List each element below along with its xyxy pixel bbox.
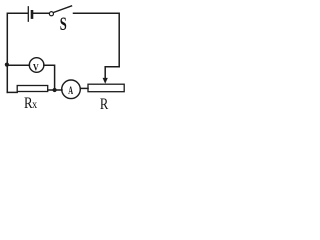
wire junction to ammeter (48, 89, 62, 91)
wire battery to switch (33, 12, 49, 14)
svg-text:x: x (32, 98, 37, 111)
switch S pivot circle (49, 12, 53, 16)
junction node dot bottom (53, 88, 57, 92)
wire left corner to resistor Rx (7, 91, 17, 93)
svg-text:R: R (100, 96, 109, 113)
svg-text:A: A (68, 84, 73, 97)
ammeter A circle (62, 80, 81, 99)
rheostat slider arrowhead (103, 78, 108, 84)
rheostat R body (88, 84, 124, 92)
svg-text:S: S (60, 15, 67, 35)
wire top-left from left corner to battery (7, 13, 27, 92)
voltmeter V circle (29, 58, 44, 73)
switch S lever arm (53, 6, 71, 13)
wire switch to top-right corner and down right side (74, 13, 120, 67)
battery cell short plate (31, 11, 34, 17)
battery cell long plate (27, 7, 29, 21)
svg-text:V: V (33, 63, 39, 74)
junction node dot left (5, 63, 9, 67)
wire junction to voltmeter (7, 64, 29, 66)
wire jog to rheostat slider (105, 67, 119, 79)
wire ammeter to rheostat (80, 87, 88, 89)
resistor Rx body (17, 86, 48, 92)
wire voltmeter to bottom junction (44, 65, 55, 90)
